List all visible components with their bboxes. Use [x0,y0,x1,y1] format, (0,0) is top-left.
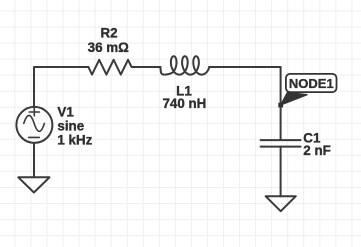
svg-text:R2: R2 [100,25,117,40]
svg-text:740 nH: 740 nH [162,96,206,111]
svg-text:2 nF: 2 nF [303,143,331,158]
svg-text:1 kHz: 1 kHz [57,133,92,148]
svg-text:NODE1: NODE1 [289,76,334,91]
svg-text:36 mΩ: 36 mΩ [88,40,130,55]
svg-text:V1: V1 [57,104,74,119]
svg-text:sine: sine [57,118,84,133]
